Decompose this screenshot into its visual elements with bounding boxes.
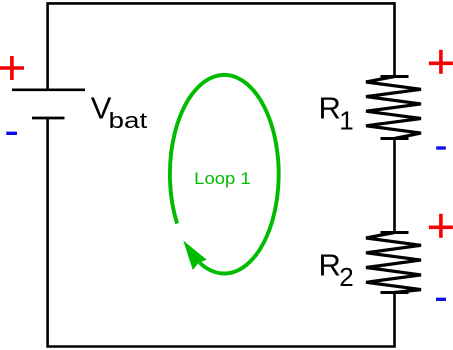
battery V_bat negative plate xyxy=(32,117,65,120)
battery plus label xyxy=(0,56,24,80)
resistor R1 bottom bar xyxy=(381,137,409,140)
R2 plus label xyxy=(429,214,453,238)
resistor R1 zigzag xyxy=(366,77,421,139)
wire between R1 bottom and R2 top xyxy=(393,139,396,233)
svg-text:2: 2 xyxy=(339,262,353,292)
wire battery negative plate down, bottom, up to R2 bottom xyxy=(48,118,395,347)
R1 minus label xyxy=(436,146,446,149)
svg-text:R: R xyxy=(319,248,341,283)
loop 1 arrow ellipse arc xyxy=(170,75,279,274)
loop 1 arrowhead xyxy=(183,241,207,271)
resistor R2 top bar xyxy=(381,231,409,234)
svg-text:R: R xyxy=(319,91,341,126)
resistor R2 bottom bar xyxy=(381,291,409,294)
resistor R1 top bar xyxy=(381,75,409,78)
R2 minus label xyxy=(436,298,446,301)
wire top-left to battery positive plate xyxy=(48,3,395,89)
svg-text:bat: bat xyxy=(109,108,148,133)
battery minus label xyxy=(6,132,17,135)
battery V_bat positive plate xyxy=(12,88,85,91)
R1 plus label xyxy=(429,50,453,74)
svg-text:1: 1 xyxy=(339,105,353,135)
resistor R2 zigzag xyxy=(366,233,421,293)
svg-text:Loop 1: Loop 1 xyxy=(194,170,251,188)
